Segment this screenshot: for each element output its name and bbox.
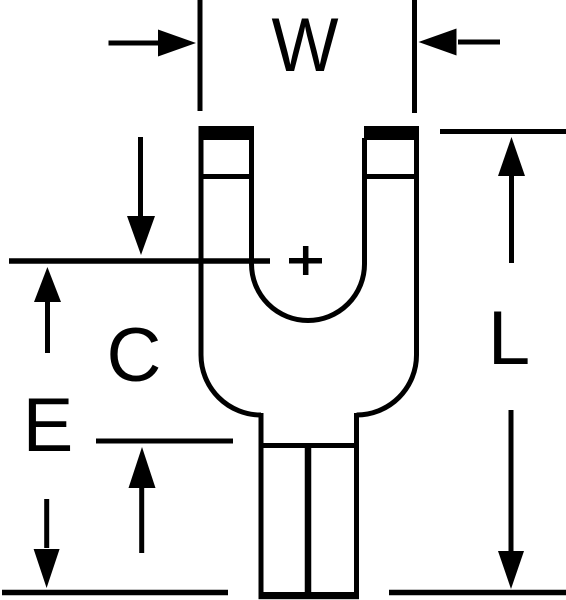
E dimension: lower arrow (pointing down at bottom line) [34,499,60,588]
center mark + at slot radius center [289,246,322,275]
fork terminal: barrel bottom edge (thick) [259,592,360,599]
W dimension: left extension line [198,0,203,111]
bottom datum line (right segment) [389,590,566,596]
W dimension: left arrow [109,30,197,57]
fork terminal: slot right inner edge [362,138,367,264]
bottom datum line (left segment) [2,590,228,596]
W dimension: right extension line [412,0,417,113]
C dimension: label C [107,313,162,398]
datum line through slot center [9,258,270,264]
fork terminal: barrel right edge [354,413,359,596]
fork terminal: barrel seam line [305,446,312,595]
E dimension: label E [23,383,74,468]
fork terminal: left shoulder curve [201,355,261,415]
L dimension: upper arrow (pointing up at top extension line) [498,137,525,263]
svg-text:W: W [272,3,339,88]
C dimension: lower arrow (pointing up at extension line) [129,447,156,553]
E dimension: upper arrow (pointing up at datum line) [34,267,61,353]
W dimension: label W [272,3,339,88]
svg-text:L: L [488,296,530,381]
fork terminal: left prong top cap (thick) [199,126,255,140]
fork terminal: right prong top cap (thick) [364,126,419,140]
svg-text:E: E [23,383,74,468]
fork terminal: right prong outer edge [414,127,419,355]
svg-text:C: C [107,313,162,398]
C dimension: upper arrow (pointing down at datum line) [127,137,155,255]
fork terminal: barrel left edge [259,413,264,596]
fork terminal: slot U bottom curve [252,264,365,321]
fork terminal: left prong outer edge [199,127,204,355]
C dimension: lower extension line [96,439,233,444]
L dimension: lower arrow (pointing down at bottom line) [498,410,524,589]
W dimension: right arrow [419,29,501,56]
fork terminal: slot left inner edge [249,138,254,264]
fork terminal: right shoulder curve [357,355,417,415]
fork terminal: barrel top line [259,443,358,448]
L dimension: top extension line [440,129,566,134]
fork terminal: right prong inner line [364,174,419,179]
fork terminal: left prong inner line [199,174,254,179]
L dimension: label L [488,296,530,381]
